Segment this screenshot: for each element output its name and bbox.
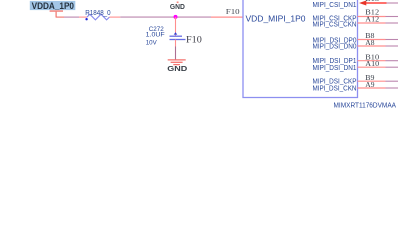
resistor R1848_0 pin 1 dot bbox=[85, 18, 87, 20]
pin stub bbox=[358, 60, 386, 62]
ground GND bbox=[167, 60, 188, 73]
wire to resistor bbox=[64, 16, 79, 18]
svg-text:1.0UF: 1.0UF bbox=[146, 32, 165, 39]
pin MIPI_CSI_CKP (B12) bbox=[313, 7, 398, 22]
svg-text:VDDA_1P0: VDDA_1P0 bbox=[32, 1, 74, 11]
wire bbox=[386, 80, 398, 82]
capacitor C272 polarity marker bbox=[174, 32, 178, 34]
junction bbox=[174, 15, 178, 19]
wire capacitor to ground bbox=[175, 47, 177, 60]
resistor R1848_0 bbox=[85, 10, 110, 20]
resistor R1848_0 pin 1 stub bbox=[79, 16, 87, 18]
pin MIPI_DSI_DN0 (A8) bbox=[313, 38, 398, 50]
net label VDDA_1P0 (highlighted) bbox=[30, 1, 76, 11]
wire resistor to IC bbox=[120, 16, 211, 18]
capacitor pin 2 stub bbox=[175, 40, 177, 47]
capacitor C272 bbox=[146, 26, 186, 46]
svg-text:MIPI_DSI_DN1: MIPI_DSI_DN1 bbox=[313, 65, 357, 72]
pin stub bbox=[358, 66, 386, 68]
wire bbox=[386, 39, 398, 41]
pin MIPI_DSI_CKN (A9) bbox=[313, 80, 398, 93]
svg-text:MIPI_DSI_CKN: MIPI_DSI_CKN bbox=[313, 85, 357, 92]
svg-text:10V: 10V bbox=[146, 39, 157, 46]
pin stub bbox=[358, 39, 386, 41]
wire bbox=[386, 16, 398, 18]
svg-text:MIPI_DSI_DN0: MIPI_DSI_DN0 bbox=[313, 43, 357, 50]
pin stub bbox=[358, 87, 386, 89]
pin stub bbox=[358, 22, 386, 24]
wire bbox=[386, 22, 398, 24]
pin stub bbox=[358, 80, 386, 82]
pin stub VDD_MIPI_1P0 (F10) bbox=[211, 16, 243, 18]
svg-text:F10: F10 bbox=[226, 7, 240, 16]
wire junction to capacitor bbox=[175, 17, 177, 36]
power pin tick above GND bbox=[177, 2, 179, 4]
wire bbox=[386, 60, 398, 62]
svg-text:MIPI_CSI_DN1: MIPI_CSI_DN1 bbox=[313, 2, 357, 9]
pin stub bbox=[358, 16, 386, 18]
pin MIPI_DSI_DP0 (B8) bbox=[313, 31, 398, 44]
wire bbox=[386, 45, 398, 47]
wire VDDA_1P0 power stub bbox=[56, 16, 64, 18]
pin MIPI_CSI_DN1 (selected, red) bbox=[313, 0, 398, 9]
svg-text:MIMXRT1176DVMAA: MIMXRT1176DVMAA bbox=[334, 103, 397, 110]
svg-text:GND: GND bbox=[167, 64, 188, 73]
wire bbox=[386, 87, 398, 89]
pin MIPI_DSI_DP1 (B10) bbox=[313, 52, 398, 65]
svg-text:R1848_0: R1848_0 bbox=[85, 10, 110, 17]
wire bbox=[386, 66, 398, 68]
svg-text:MIPI_CSI_CKN: MIPI_CSI_CKN bbox=[313, 22, 357, 29]
IC U1 MIMXRT1176DVMAA bbox=[243, 0, 396, 110]
svg-text:VDD_MIPI_1P0: VDD_MIPI_1P0 bbox=[246, 14, 307, 23]
power symbol VDDA_1P0 bar bbox=[50, 10, 63, 17]
pin MIPI_DSI_DN1 (A10) bbox=[313, 59, 398, 72]
pin MIPI_CSI_CKN (A12) bbox=[313, 15, 398, 29]
svg-text:GND: GND bbox=[170, 2, 185, 11]
svg-text:A12: A12 bbox=[365, 15, 379, 24]
pin stub bbox=[358, 45, 386, 47]
resistor R1848_0 pin 2 stub bbox=[109, 16, 120, 18]
svg-text:F10: F10 bbox=[186, 35, 202, 46]
pin MIPI_DSI_CKP (B9) bbox=[313, 73, 398, 85]
svg-text:B13: B13 bbox=[365, 0, 379, 3]
